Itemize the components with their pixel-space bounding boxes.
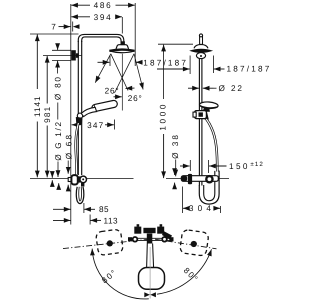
- ext line right of head: [134, 3, 136, 66]
- dim 187/187 front: [98, 61, 110, 63]
- svg-text:304: 304: [189, 204, 215, 213]
- valve center line: [30, 178, 134, 180]
- svg-text:187/187: 187/187: [143, 58, 188, 67]
- overhead shower disc: [109, 50, 134, 51]
- head dome: [116, 45, 129, 49]
- ref line 1000 top: [158, 43, 193, 45]
- dim 113: [53, 219, 71, 221]
- ref line top (arm level): [30, 33, 79, 35]
- dim 486: [71, 4, 90, 6]
- axis dash-dot right: [155, 239, 217, 249]
- dim Ø22: [188, 87, 199, 89]
- pipe side: [198, 58, 200, 185]
- svg-text:347: 347: [87, 121, 104, 130]
- dot left: [107, 240, 113, 246]
- svg-text:486: 486: [94, 1, 113, 10]
- bow-tie marker: [149, 247, 151, 299]
- top knob: [199, 34, 202, 37]
- svg-text:Ø 22: Ø 22: [219, 84, 244, 93]
- dim 1141: [36, 34, 38, 89]
- hose U loop side: [199, 171, 219, 205]
- svg-text:Ø G 1/2: Ø G 1/2: [54, 120, 63, 161]
- riser pipe: [77, 41, 79, 175]
- svg-text:Ø 68: Ø 68: [65, 133, 74, 160]
- spray lines: [95, 54, 111, 83]
- dashed square right: [179, 229, 209, 256]
- dim 981: [46, 56, 48, 104]
- disc side (black lens): [189, 49, 213, 53]
- valve stub below: [81, 183, 84, 187]
- dashed square left: [95, 229, 123, 256]
- spray axis: [121, 54, 123, 111]
- dim 394: [71, 16, 90, 18]
- svg-text:7: 7: [51, 23, 56, 32]
- svg-text:26°: 26°: [128, 94, 143, 103]
- wall bracket: [71, 50, 76, 60]
- handle stem: [146, 244, 149, 269]
- holder side: hand shower cross-section: [203, 109, 209, 120]
- ext line arm center: [121, 17, 123, 34]
- hose side: [206, 119, 217, 172]
- valve center line side: [166, 178, 229, 180]
- valve top view center assembly: [129, 237, 174, 239]
- axis dash-dot left: [63, 239, 147, 248]
- holder bracket: [195, 111, 207, 119]
- svg-text:113: 113: [104, 216, 119, 225]
- arc left 80°: [92, 249, 149, 299]
- hose front: [76, 123, 79, 175]
- dim 347: [72, 124, 78, 126]
- svg-text:Ø 38: Ø 38: [171, 133, 180, 159]
- svg-text:981: 981: [43, 106, 52, 123]
- valve side body: [181, 176, 218, 182]
- hand shower handle: [81, 107, 96, 116]
- dome side: [194, 44, 208, 48]
- hand shower head: [91, 100, 118, 112]
- dim Ø80 lines: [52, 49, 71, 51]
- svg-text:150±12: 150±12: [229, 161, 264, 171]
- svg-text:85: 85: [99, 205, 109, 214]
- svg-text:26°: 26°: [105, 87, 120, 96]
- dim 85: [53, 208, 71, 210]
- dot right: [191, 241, 197, 247]
- svg-text:Ø 80: Ø 80: [54, 75, 63, 100]
- dim 187/187 side: [157, 68, 190, 70]
- hub below disc: [196, 53, 205, 59]
- handle knob: [139, 268, 165, 290]
- svg-text:394: 394: [94, 13, 113, 22]
- valve front cap: [68, 178, 71, 182]
- valve front ball: [80, 176, 87, 183]
- hose loop below valve: [76, 187, 84, 204]
- shower arm: [78, 34, 124, 44]
- G 1/2 facing arrows: [51, 172, 53, 178]
- arc right 80°: [157, 249, 212, 294]
- dim 1000: [163, 45, 165, 52]
- svg-text:80°: 80°: [182, 266, 201, 284]
- dim 150±12: [180, 165, 190, 167]
- svg-text:187/187: 187/187: [227, 64, 272, 73]
- ref line bracket center: [43, 55, 82, 57]
- svg-text:1000: 1000: [158, 102, 167, 131]
- svg-text:80°: 80°: [100, 267, 119, 285]
- valve side knob: [174, 170, 176, 176]
- holder knob: [77, 113, 82, 118]
- wall line: [70, 4, 72, 225]
- svg-text:1141: 1141: [33, 95, 42, 117]
- dim 304: [182, 187, 184, 214]
